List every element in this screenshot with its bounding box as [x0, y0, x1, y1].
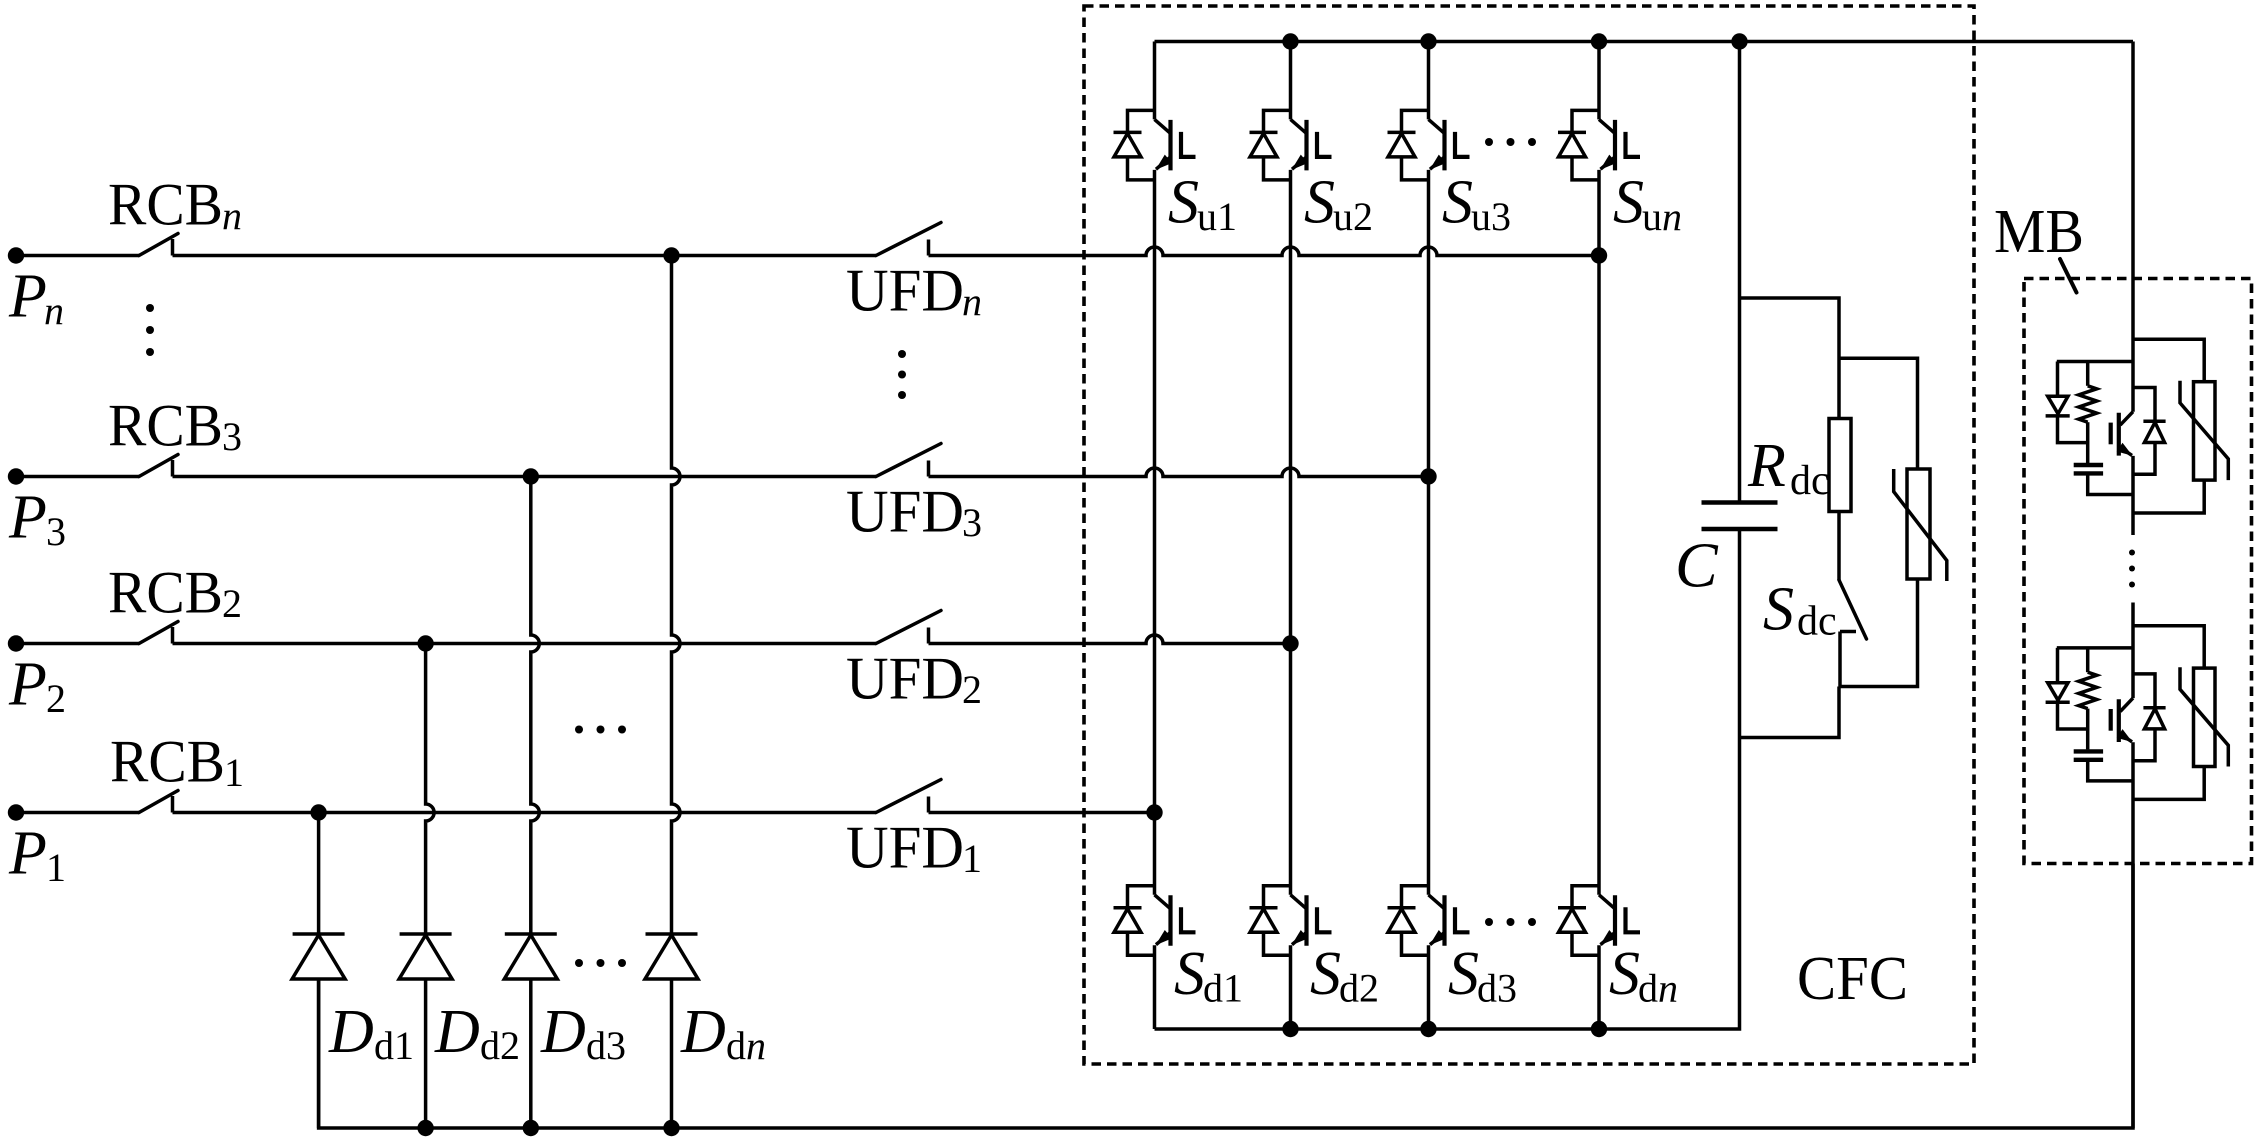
- svg-text:S: S: [1168, 169, 1199, 237]
- IGBT MB1: [2111, 412, 2133, 456]
- junction branch Sn / row Pn: [1591, 247, 1607, 263]
- wire RCB1 to UFD1: [173, 811, 877, 815]
- wire branch S3 middle: [1427, 170, 1431, 477]
- diode D_dn: [645, 934, 698, 979]
- IGBT S_d3: [1388, 886, 1470, 956]
- IGBT S_un: [1558, 110, 1640, 179]
- wire CFC top bus: [1155, 40, 2134, 44]
- wire branch S_d3 upper: [1427, 477, 1431, 895]
- junction row P2 / column D_d2: [417, 635, 433, 651]
- wire branch S_u3 upper: [1427, 42, 1431, 120]
- IGBT S_dn: [1558, 886, 1640, 956]
- svg-text:S: S: [1448, 940, 1479, 1008]
- svg-text:D: D: [540, 998, 586, 1066]
- svg-text:P: P: [8, 263, 47, 331]
- ellipsis vertical MB cells: [2129, 550, 2135, 588]
- wire capacitor branch upper: [1738, 42, 1742, 501]
- diode MB1 antiparallel: [2133, 388, 2166, 475]
- svg-text:D: D: [680, 998, 726, 1066]
- varistor MB1: [2180, 381, 2228, 480]
- wire branch S_u1 upper: [1153, 42, 1157, 120]
- svg-text:D: D: [434, 998, 480, 1066]
- svg-text:u1: u1: [1197, 194, 1237, 239]
- junction top bus / S_u2 branch: [1282, 33, 1298, 49]
- label C: [1675, 530, 1719, 601]
- svg-text:dc: dc: [1790, 458, 1830, 504]
- svg-text:2: 2: [46, 676, 66, 721]
- label S_un: [1613, 169, 1682, 240]
- svg-text:UFD: UFD: [846, 258, 964, 324]
- svg-text:n: n: [746, 1023, 766, 1068]
- switch RCBn: [139, 234, 178, 256]
- label S_u2: [1304, 169, 1373, 240]
- svg-text:3: 3: [46, 509, 66, 554]
- svg-text:2: 2: [222, 581, 242, 626]
- label RCB_1: [110, 729, 244, 796]
- junction row P3 / column D_d3: [523, 468, 539, 484]
- wire branch S_dn upper: [1597, 256, 1601, 895]
- svg-text:R: R: [1747, 432, 1786, 500]
- svg-text:3: 3: [222, 414, 242, 459]
- svg-text:UFD: UFD: [846, 479, 964, 545]
- wire RCB3 to UFD3: [173, 475, 877, 479]
- switch UFD1: [876, 780, 941, 813]
- svg-text:n: n: [44, 288, 64, 333]
- junction CFC bottom bus / S_d3: [1420, 1021, 1436, 1037]
- wire UFDn to CFC branch: [929, 247, 1600, 255]
- switch RCB1: [139, 791, 178, 813]
- label S_dc: [1763, 576, 1837, 645]
- svg-text:S: S: [1310, 940, 1341, 1008]
- label UFD_n: [846, 258, 982, 325]
- wire branch S_dn lower: [1597, 945, 1601, 1029]
- resistor MB2 snubber: [2079, 648, 2097, 709]
- wire branch S_u2 upper: [1289, 42, 1293, 120]
- svg-text:n: n: [222, 193, 242, 238]
- wire MB1 snubber bottom: [2088, 475, 2133, 494]
- svg-text:UFD: UFD: [846, 646, 964, 712]
- diode MB2 antiparallel: [2133, 674, 2166, 761]
- label S_dn: [1609, 940, 1678, 1011]
- label D_d3: [540, 998, 626, 1068]
- wire column D_dn upper: [672, 256, 681, 935]
- svg-text:1: 1: [962, 836, 982, 881]
- svg-text:P: P: [8, 651, 47, 719]
- svg-text:S: S: [1442, 169, 1473, 237]
- IGBT MB2: [2111, 698, 2133, 742]
- svg-text:RCB: RCB: [110, 729, 225, 795]
- label S_d2: [1310, 940, 1379, 1011]
- svg-text:S: S: [1174, 940, 1205, 1008]
- CFC dashed box: [1084, 6, 1974, 1064]
- svg-text:d2: d2: [480, 1023, 520, 1068]
- wire MB1 cell: [2131, 456, 2135, 535]
- diode D_d1: [292, 934, 345, 979]
- junction bottom bus / D_d2: [417, 1120, 433, 1136]
- wire branch S_d2 lower: [1289, 945, 1293, 1029]
- capacitor C: [1702, 503, 1778, 530]
- wire capacitor branch lower: [1738, 531, 1742, 738]
- capacitor MB1 snubber: [2074, 465, 2103, 473]
- label CFC: [1797, 945, 1908, 1013]
- svg-text:d1: d1: [1203, 966, 1243, 1011]
- ellipsis vertical between P_n and P_3: [146, 304, 154, 356]
- svg-text:d1: d1: [374, 1023, 414, 1068]
- wire MB1 varistor loop: [2133, 339, 2204, 513]
- wire Pn to RCBn: [16, 254, 139, 258]
- wire MB2 cell: [2131, 742, 2135, 1128]
- junction branch S2 / row P2: [1282, 635, 1298, 651]
- label RCB_n: [108, 172, 242, 239]
- junction top bus / S_un branch: [1591, 33, 1607, 49]
- label UFD_1: [846, 815, 982, 882]
- wire column D_d2 upper: [426, 644, 435, 935]
- wire MB2 snubber rail: [2057, 646, 2133, 650]
- MB dashed box: [2024, 279, 2252, 864]
- svg-text:dc: dc: [1797, 599, 1837, 645]
- wire RCBn to UFDn: [173, 254, 877, 258]
- svg-text:RCB: RCB: [108, 560, 223, 626]
- wire MB1 snubber mid: [2086, 422, 2090, 463]
- label P_2: [8, 651, 66, 722]
- wire branch S_un upper: [1597, 42, 1601, 120]
- varistor CFC: [1894, 469, 1947, 581]
- label RCB_3: [108, 393, 242, 460]
- IGBT S_d1: [1114, 886, 1196, 956]
- junction CFC bottom bus / S_d2: [1282, 1021, 1298, 1037]
- node P3 terminal: [8, 468, 24, 484]
- wire CFC bottom bus: [1155, 738, 1740, 1030]
- wire column D_d3 lower: [529, 979, 533, 1128]
- IGBT S_d2: [1250, 886, 1332, 956]
- svg-text:UFD: UFD: [846, 815, 964, 881]
- svg-text:3: 3: [962, 500, 982, 545]
- junction top bus / S_u3 branch: [1420, 33, 1436, 49]
- svg-text:C: C: [1675, 530, 1719, 601]
- switch RCB3: [139, 455, 178, 477]
- svg-text:RCB: RCB: [108, 393, 223, 459]
- wire branch S1 middle: [1153, 170, 1157, 813]
- junction top bus / capacitor branch: [1731, 33, 1747, 49]
- svg-text:MB: MB: [1994, 198, 2084, 266]
- svg-text:d3: d3: [586, 1023, 626, 1068]
- wire MB1 snubber rail: [2057, 360, 2133, 364]
- label RCB_2: [108, 560, 242, 627]
- wire UFD1 to CFC branch: [929, 811, 1155, 815]
- svg-text:S: S: [1613, 169, 1644, 237]
- wire MB2 snubber bottom: [2088, 762, 2133, 781]
- diode MB1 snubber: [2046, 362, 2088, 443]
- svg-text:d3: d3: [1477, 966, 1517, 1011]
- wire damping bottom rail: [1840, 579, 1918, 687]
- wire branch S_d1 lower: [1153, 945, 1157, 1029]
- svg-text:S: S: [1609, 940, 1640, 1008]
- junction row P1 / column D_d1: [310, 804, 326, 820]
- wire branch S2 middle: [1289, 170, 1293, 644]
- wire RCB2 to UFD2: [173, 642, 877, 646]
- wire branch S_d3 lower: [1427, 945, 1431, 1029]
- junction bottom bus / D_d3: [523, 1120, 539, 1136]
- svg-text:n: n: [962, 279, 982, 324]
- node Pn terminal: [8, 247, 24, 263]
- label D_dn: [680, 998, 766, 1068]
- ellipsis horizontal between S_d3 and S_dn: [1485, 918, 1536, 926]
- label P_1: [8, 820, 66, 891]
- svg-text:S: S: [1763, 576, 1794, 644]
- switch UFD3: [876, 444, 941, 477]
- svg-text:d: d: [726, 1023, 746, 1068]
- label MB: [1994, 198, 2084, 266]
- ellipsis horizontal between diodes D_d3 and D_dn: [575, 959, 626, 967]
- svg-text:2: 2: [962, 667, 982, 712]
- svg-text:d: d: [1638, 966, 1658, 1011]
- junction branch S1 / row P1: [1146, 804, 1162, 820]
- diode D_d3: [504, 934, 557, 979]
- label UFD_2: [846, 646, 982, 713]
- wire branch S_d2 upper: [1289, 644, 1293, 895]
- IGBT S_u1: [1114, 110, 1196, 179]
- label D_d2: [434, 998, 520, 1068]
- resistor R_dc: [1829, 419, 1851, 512]
- junction bottom bus / D_dn: [663, 1120, 679, 1136]
- wire branch S_d1 upper: [1153, 813, 1157, 895]
- resistor MB1 snubber: [2079, 362, 2097, 423]
- junction row Pn / column D_dn: [663, 247, 679, 263]
- ellipsis horizontal between columns D_d3 and D_dn: [575, 726, 626, 734]
- label S_u1: [1168, 169, 1237, 240]
- wire MB2 snubber mid: [2086, 709, 2090, 750]
- wire column D_d1 upper: [317, 813, 321, 935]
- svg-text:1: 1: [46, 845, 66, 890]
- varistor MB2: [2180, 667, 2228, 766]
- wire branch Sn middle: [1597, 170, 1601, 256]
- switch S_dc: [1839, 580, 1867, 639]
- wire column D_d2 lower: [424, 979, 428, 1128]
- wire P1 to RCB1: [16, 811, 139, 815]
- wire column D_d1 lower: [317, 979, 321, 1128]
- svg-text:u: u: [1642, 194, 1662, 239]
- switch UFD2: [876, 611, 941, 644]
- svg-text:P: P: [8, 484, 47, 552]
- label S_d3: [1448, 940, 1517, 1011]
- diode D_d2: [399, 934, 452, 979]
- capacitor MB2 snubber: [2074, 751, 2103, 759]
- wire MB2 varistor loop: [2133, 626, 2204, 800]
- wire damping return rail: [1740, 687, 1840, 738]
- switch UFDn: [876, 223, 941, 256]
- wire column D_dn lower: [670, 979, 674, 1128]
- label R_dc: [1747, 432, 1830, 504]
- svg-text:RCB: RCB: [108, 172, 223, 238]
- label UFD_3: [846, 479, 982, 546]
- junction CFC bottom bus / S_dn: [1591, 1021, 1607, 1037]
- node P1 terminal: [8, 804, 24, 820]
- node P2 terminal: [8, 635, 24, 651]
- IGBT S_u3: [1388, 110, 1470, 179]
- wire varistor top rail: [1839, 358, 1918, 469]
- breaker slash MB: [2060, 259, 2077, 293]
- svg-text:n: n: [1662, 194, 1682, 239]
- svg-text:1: 1: [224, 750, 244, 795]
- wire UFD3 to CFC branch: [929, 468, 1429, 477]
- svg-text:n: n: [1658, 966, 1678, 1011]
- wire right riser upper: [2131, 42, 2135, 412]
- wire UFD2 to CFC branch: [929, 635, 1291, 644]
- junction branch S3 / row P3: [1420, 468, 1436, 484]
- label P_n: [8, 263, 64, 334]
- svg-text:S: S: [1304, 169, 1335, 237]
- svg-text:u2: u2: [1333, 194, 1373, 239]
- label P_3: [8, 484, 66, 555]
- ellipsis vertical between UFD_n and UFD_3: [898, 350, 906, 399]
- wire damping top rail: [1740, 298, 1840, 419]
- wire S_dc lower: [1838, 632, 1842, 687]
- svg-text:d2: d2: [1339, 966, 1379, 1011]
- wire bottom bus: [319, 864, 2133, 1129]
- wire right riser middle: [2131, 603, 2135, 699]
- wire column D_d3 upper: [531, 477, 540, 935]
- label S_u3: [1442, 169, 1511, 240]
- label D_d1: [328, 998, 414, 1068]
- svg-text:CFC: CFC: [1797, 945, 1908, 1013]
- ellipsis horizontal between S_u3 and S_un: [1485, 138, 1536, 146]
- switch RCB2: [139, 622, 178, 644]
- label S_d1: [1174, 940, 1243, 1011]
- svg-text:P: P: [8, 820, 47, 888]
- wire P2 to RCB2: [16, 642, 139, 646]
- wire P3 to RCB3: [16, 475, 139, 479]
- svg-text:u3: u3: [1471, 194, 1511, 239]
- diode MB2 snubber: [2046, 648, 2088, 729]
- wire R_dc to S_dc: [1837, 512, 1841, 581]
- svg-text:D: D: [328, 998, 374, 1066]
- IGBT S_u2: [1250, 110, 1332, 179]
